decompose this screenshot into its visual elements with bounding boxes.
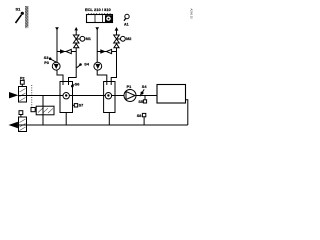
svg-text:S7: S7 — [79, 104, 84, 108]
circuit2 supply arrow up — [115, 27, 119, 31]
pump P3 — [52, 62, 60, 70]
return meter body — [19, 117, 27, 132]
return header — [18, 124, 188, 126]
controller display dividers — [94, 15, 96, 23]
sensor S1 probe — [21, 12, 24, 15]
meter terminal square — [31, 108, 35, 112]
svg-text:S4: S4 — [142, 85, 148, 89]
mixing unit B2 — [104, 82, 115, 113]
mixing unit B2 pump eye — [105, 93, 111, 99]
supply header — [27, 95, 125, 97]
return meter terminal — [19, 111, 23, 115]
sensor S6 lead — [73, 84, 75, 85]
wire through B2 — [104, 95, 115, 97]
sensor S4 lead — [77, 65, 80, 68]
svg-text:A266.10: A266.10 — [189, 9, 193, 20]
svg-text:S5: S5 — [138, 100, 143, 104]
circuit1 return pipe — [56, 30, 58, 63]
svg-text:ECL 210 / 310: ECL 210 / 310 — [85, 7, 111, 12]
controller U1 body — [87, 15, 113, 23]
actuator M1 link — [76, 38, 80, 40]
pump P1 — [124, 90, 136, 102]
pump P4 — [94, 62, 102, 70]
svg-text:S4: S4 — [84, 63, 90, 67]
wire through calculator — [42, 106, 44, 115]
circuit1 return drop — [57, 70, 63, 85]
svg-text:S8: S8 — [137, 114, 142, 118]
circuit1 supply arrow up — [74, 27, 78, 30]
mixing unit B2 drop — [108, 113, 110, 126]
wire through return meter — [19, 124, 27, 126]
sensor S7 square — [74, 104, 77, 107]
meter flow part P2 terminal — [20, 80, 24, 84]
actuator M2 — [121, 36, 126, 41]
meter flow part P2 body — [19, 87, 27, 103]
svg-text:M2: M2 — [126, 37, 131, 41]
energy calculator box — [36, 106, 54, 115]
district inlet arrow — [9, 92, 18, 98]
bypass drop pipe — [42, 96, 44, 107]
sensor S6 dot — [71, 85, 74, 88]
sensor S3 dot — [49, 57, 52, 60]
check valve circuit1 vertical — [74, 44, 79, 48]
circuit2 return drop — [97, 70, 107, 85]
boiler outlet pipe — [186, 100, 188, 125]
svg-text:P3: P3 — [44, 61, 49, 65]
sensor S4b lead — [140, 89, 144, 96]
circuit2 check valve — [106, 49, 111, 53]
sensor S4b dot — [141, 92, 144, 95]
circuit2 supply pipe — [116, 30, 118, 35]
sensor S7 stub — [73, 104, 75, 106]
sensor S5 square — [143, 100, 146, 103]
svg-text:P2: P2 — [20, 76, 25, 80]
svg-text:M1: M1 — [86, 37, 91, 41]
actuator M2 link — [117, 38, 121, 40]
wall hatch — [25, 6, 28, 28]
circuit1 bypass line — [57, 51, 76, 53]
svg-text:S1: S1 — [16, 7, 22, 12]
sensor S4 dot — [79, 63, 82, 66]
circuit2 supply pipe lower — [111, 48, 116, 85]
sensor S5 stub — [144, 96, 146, 100]
valve M1 bowtie — [73, 35, 79, 43]
sensor S8 square — [142, 113, 145, 116]
remote unit A1 symbol — [125, 14, 129, 18]
circuit1 return arrow down — [55, 27, 59, 30]
circuit1 flow arrow — [60, 49, 66, 53]
controller dial — [105, 15, 112, 22]
svg-text:S6: S6 — [75, 82, 80, 86]
check valve circuit2 vertical — [114, 44, 119, 48]
circuit1 check valve — [66, 49, 71, 53]
mixing unit B1 pump eye — [63, 93, 69, 99]
wire through B1 — [60, 95, 73, 97]
circuit2 return pipe — [96, 30, 98, 63]
controller terminal ticks — [89, 13, 111, 14]
circuit2 flow arrow — [100, 49, 106, 53]
boiler A2 — [157, 85, 186, 104]
mixing unit B1 — [60, 82, 73, 113]
sensor S3 lead — [51, 59, 57, 62]
mixing unit B1 drop — [65, 113, 67, 126]
circuit2 return arrow down — [95, 27, 99, 30]
valve M2 bowtie — [114, 35, 120, 43]
actuator M1 — [80, 36, 85, 41]
svg-text:P1: P1 — [127, 85, 132, 89]
circuit1 supply pipe — [75, 30, 77, 35]
circuit1 supply pipe lower — [69, 48, 77, 85]
wire through flow meter — [19, 95, 27, 97]
svg-text:A1: A1 — [124, 22, 129, 26]
district outlet arrow — [9, 122, 18, 128]
svg-text:S3: S3 — [44, 56, 49, 60]
meter bus dashed line — [31, 85, 33, 108]
circuit2 bypass line — [97, 51, 116, 53]
sensor S8 stub — [143, 117, 145, 125]
